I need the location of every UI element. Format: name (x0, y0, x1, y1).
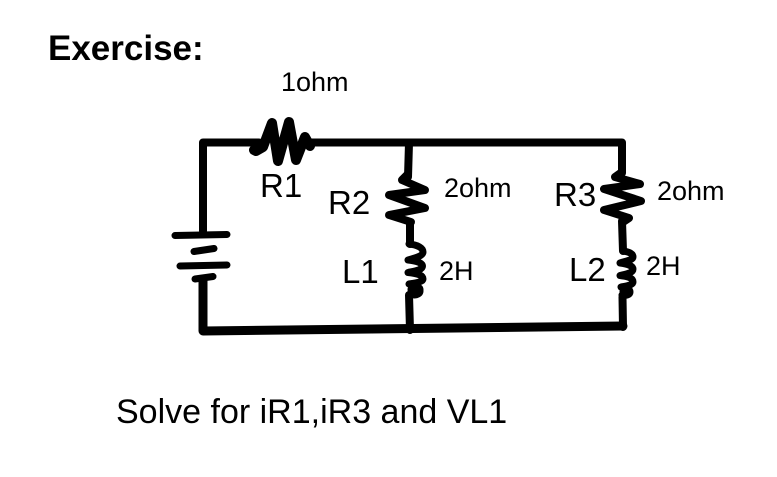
svg-text:R3: R3 (554, 176, 596, 213)
svg-text:L2: L2 (569, 251, 606, 288)
svg-text:R2: R2 (328, 184, 370, 221)
svg-text:2ohm: 2ohm (444, 173, 512, 203)
svg-text:1ohm: 1ohm (281, 67, 349, 97)
svg-text:Exercise:: Exercise: (48, 29, 204, 68)
svg-text:Solve for iR1,iR3 and VL1: Solve for iR1,iR3 and VL1 (116, 393, 507, 431)
svg-text:2H: 2H (439, 256, 474, 286)
svg-text:2H: 2H (646, 251, 681, 281)
svg-text:R1: R1 (260, 167, 302, 204)
svg-text:L1: L1 (342, 253, 379, 290)
svg-text:2ohm: 2ohm (657, 176, 725, 206)
